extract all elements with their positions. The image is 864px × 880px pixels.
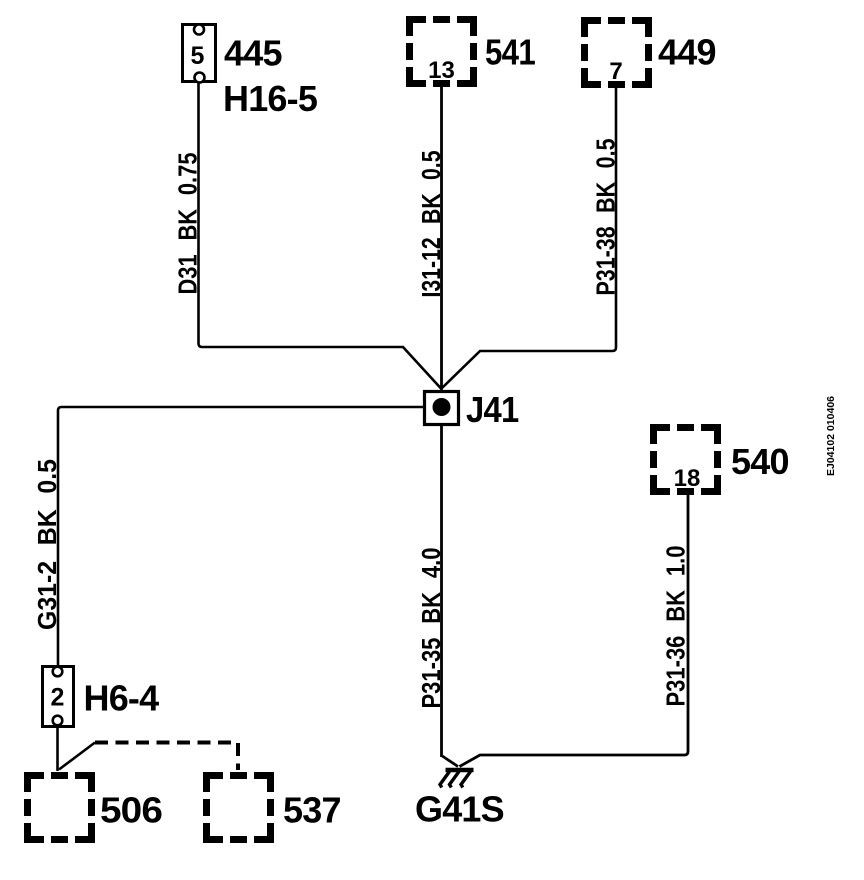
svg-text:G31-2 BK 0.5: G31-2 BK 0.5	[34, 459, 62, 630]
connector 537 (dashed box)	[207, 776, 271, 840]
svg-text:EJ04102 010406: EJ04102 010406	[825, 396, 837, 476]
connector 445 (H16-5 pin 5)	[183, 25, 216, 83]
svg-text:P31-35 BK 4.0: P31-35 BK 4.0	[418, 548, 446, 709]
svg-text:449: 449	[658, 32, 716, 73]
svg-text:H16-5: H16-5	[223, 78, 318, 119]
svg-text:J41: J41	[466, 389, 519, 430]
connector 540 (dashed box)	[654, 428, 718, 493]
dashed link wire from 506 entry to connector 537	[59, 743, 95, 770]
svg-text:506: 506	[100, 790, 162, 831]
connector 506 (dashed box)	[28, 776, 92, 840]
wire segment H6-4 pin 2 to connector 506	[56, 725, 59, 771]
svg-text:541: 541	[485, 32, 536, 73]
wire G31-2 from junction J41 to connector H6-4	[58, 407, 423, 665]
svg-text:H6-4: H6-4	[84, 678, 160, 719]
connector H6-4 (pin 2)	[43, 667, 74, 727]
wire D31 from connector 445 to junction J41	[199, 83, 442, 389]
ground G41S	[440, 770, 474, 788]
connector 449 (dashed box)	[585, 21, 649, 86]
wire P31-38 from connector 449 to junction J41	[442, 88, 617, 389]
svg-text:I31-12 BK 0.5: I31-12 BK 0.5	[418, 151, 446, 298]
svg-text:537: 537	[283, 790, 341, 831]
svg-text:18: 18	[674, 465, 701, 492]
wire I31-12 from connector 541 down through junction J41 to ground	[440, 87, 443, 757]
svg-text:445: 445	[224, 33, 282, 74]
svg-text:2: 2	[51, 684, 65, 712]
wire diagonal from P31-35 into ground point	[442, 756, 459, 767]
svg-text:540: 540	[731, 441, 789, 482]
svg-text:D31 BK 0.75: D31 BK 0.75	[175, 153, 203, 295]
svg-text:P31-38 BK 0.5: P31-38 BK 0.5	[593, 139, 621, 296]
svg-text:5: 5	[191, 42, 205, 70]
svg-text:G41S: G41S	[415, 789, 504, 830]
svg-text:P31-36 BK 1.0: P31-36 BK 1.0	[663, 546, 691, 707]
svg-text:7: 7	[609, 58, 622, 85]
connector 541 (dashed box)	[410, 20, 474, 85]
junction J41	[425, 392, 459, 425]
svg-text:13: 13	[428, 57, 455, 84]
wire P31-36 from connector 540 down and left to ground	[460, 495, 689, 767]
